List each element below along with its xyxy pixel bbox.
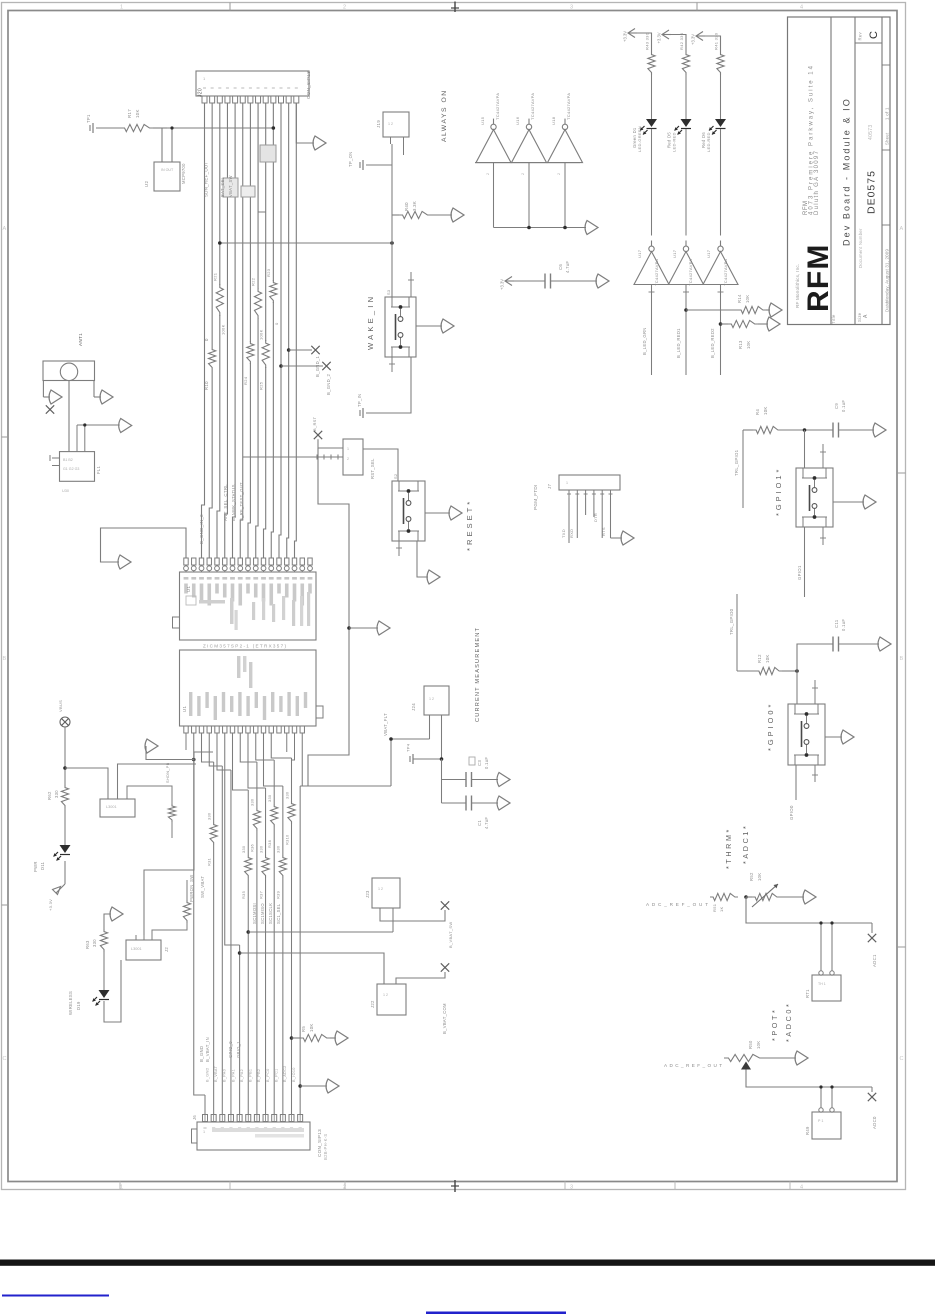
potentiometer R50 [724,1054,764,1061]
test point TP1 [92,123,94,133]
wire U1 to J6 pin 1 [194,733,205,1095]
svg-text:10K: 10K [763,406,768,415]
resistor R40 [399,211,431,218]
svg-text:DE0575: DE0575 [866,170,878,214]
svg-text:TRL_GPIO0: TRL_GPIO0 [729,608,734,635]
svg-text:B: B [900,656,904,662]
link underline 2 [426,1312,566,1315]
svg-text:330: 330 [258,845,263,853]
resistor R37 [262,855,269,878]
current sense wires [300,785,391,787]
wire down [64,727,66,785]
buffer U17B [669,252,704,285]
svg-text:330: 330 [206,812,211,820]
wire U1 to J6 pin 6 [233,733,249,790]
R14 chain [684,308,688,312]
svg-text:J6: J6 [192,1115,197,1120]
wire U1 to J6 pin 4 [217,733,231,770]
net flag top [60,717,70,727]
svg-text:RTS: RTS [601,527,606,536]
svg-text:*ADC1*: *ADC1* [741,824,750,864]
svg-text:3.3K: 3.3K [412,201,417,211]
svg-text:B_GND: B_GND [199,1046,204,1062]
wire bus J20 pin 4 to U1 [225,103,228,558]
svg-text:C9: C9 [834,403,839,409]
svg-text:1: 1 [203,76,206,81]
svg-text:1: 1 [566,481,568,485]
svg-text:B_PC0: B_PC0 [266,1068,270,1082]
svg-text:0.1uF: 0.1uF [484,757,489,769]
svg-text:10K: 10K [757,873,762,881]
svg-text:2: 2 [486,173,490,175]
svg-text:B1 B2: B1 B2 [63,458,73,462]
gpio1 arrow [833,501,864,503]
right side pin lower box [316,706,323,718]
svg-text:S3: S3 [386,290,391,295]
svg-text:C: C [3,1056,7,1062]
module U1 lower box [180,650,317,726]
wire to bus [153,127,167,129]
svg-text:B_PA1: B_PA1 [231,1069,235,1082]
svg-text:B_PC1: B_PC1 [275,1068,279,1082]
svg-text:J7: J7 [547,484,552,489]
svg-text:TC4427AVPA: TC4427AVPA [495,93,500,120]
resistor R38 [271,804,278,827]
svg-text:10K: 10K [756,1041,761,1049]
svg-text:D11: D11 [40,861,45,870]
svg-text:L3001: L3001 [131,947,142,951]
svg-text:U17: U17 [706,249,711,258]
svg-text:ADC1: ADC1 [872,954,877,967]
svg-text:TXD: TXD [561,529,566,538]
x-flag above jumper [314,431,322,439]
svg-text:GPIO_1: GPIO_1 [236,1041,241,1058]
gpio0 bottom stubs [795,765,797,800]
svg-text:A: A [3,226,7,232]
resistor R310 [288,801,295,824]
svg-text:ADC0: ADC0 [872,1116,877,1129]
resistor R10 inline [211,103,213,347]
svg-text:B_PA0: B_PA0 [223,1069,227,1082]
svg-text:*THRM*: *THRM* [724,827,733,869]
svg-text:PGM_FTDI: PGM_FTDI [533,484,538,510]
svg-text:B_ADC2: B_ADC2 [283,1065,287,1082]
svg-text:R17: R17 [127,109,132,118]
svg-text:Size: Size [857,312,862,322]
svg-text:C11: C11 [834,619,839,628]
wire jog [258,103,266,212]
svg-text:R25: R25 [259,381,264,390]
resistor R63 [100,929,107,952]
wire U1 to J6 pin 12 [299,786,301,1115]
svg-text:SC1MOSI: SC1MOSI [252,903,257,924]
svg-text:FL1: FL1 [96,466,101,474]
second chain arrow [104,914,111,929]
svg-text:TP1: TP1 [86,114,91,123]
left side pin [173,617,180,628]
svg-text:BAT_SEL: BAT_SEL [220,176,225,197]
svg-text:WIRELESS: WIRELESS [68,991,73,1015]
svg-text:WAKE_IN: WAKE_IN [366,294,375,350]
power flag chain 2 [662,30,669,39]
wire J7 pin 5 [601,490,603,498]
svg-text:J24: J24 [411,703,416,711]
svg-text:0.1uF: 0.1uF [841,400,846,412]
wire A to jumper J23 [246,930,250,934]
svg-text:DTR: DTR [593,513,598,522]
svg-text:1K: 1K [719,906,724,912]
svg-text:ZICM357SP2-1 (ETRX357): ZICM357SP2-1 (ETRX357) [203,644,286,649]
svg-text:B_LED_RED1: B_LED_RED1 [676,328,681,358]
svg-text:B_IO10: B_IO10 [292,1067,296,1082]
svg-text:3: 3 [570,5,573,11]
svg-text:RXD: RXD [569,529,574,538]
wire U1 to J6 pin 5 [225,733,240,945]
svg-text:100K: 100K [221,324,226,335]
svg-text:C6: C6 [558,264,563,270]
resistor R24 [247,341,254,364]
wire up to bus [144,752,213,935]
svg-text:R5: R5 [301,1026,306,1032]
svg-text:4: 4 [800,1185,803,1191]
gpio1 net stub [742,430,744,508]
group2 outputs down [651,285,653,376]
svg-text:2: 2 [343,5,346,11]
module U1 bottom pins [184,726,188,733]
svg-text:R50: R50 [748,1040,753,1049]
svg-text:R62: R62 [47,791,52,800]
svg-text:40573: 40573 [868,125,874,140]
svg-text:Title: Title [831,314,836,324]
wire J7 pin 1 [568,490,570,498]
svg-text:B_GND_IN_2: B_GND_IN_2 [199,514,204,544]
svg-text:330: 330 [54,790,59,798]
svg-text:*POT*: *POT* [770,1008,779,1041]
svg-text:Sheet: Sheet [884,132,889,145]
R5 chain to arrow [290,1036,294,1040]
svg-text:3: 3 [570,1185,573,1191]
svg-text:10K: 10K [765,654,770,663]
svg-text:PWR: PWR [33,861,38,872]
buffer U17A [634,252,669,285]
module extra bottom stubs [286,733,288,752]
wire from thermistor circuit [167,127,273,129]
svg-text:330: 330 [276,845,281,853]
svg-text:TC4427AVPA: TC4427AVPA [723,259,728,286]
LED Red D5 [681,119,692,127]
svg-text:R51: R51 [712,903,717,912]
svg-text:R41 330: R41 330 [714,32,719,50]
wire to R40/wake net [220,242,392,244]
wire B to jumper J22 [238,951,242,955]
svg-text:330: 330 [267,794,272,802]
LED D11 power [60,845,71,853]
resistor R35 [245,855,252,878]
svg-text:LED-RED: LED-RED [672,132,677,152]
svg-text:1 2: 1 2 [383,993,388,997]
resistor R42 [682,52,689,75]
resistor R61 [152,923,187,935]
svg-text:C: C [900,1056,904,1062]
svg-text:330: 330 [92,939,97,947]
svg-text:R23: R23 [266,268,271,277]
svg-text:R36: R36 [250,844,255,852]
svg-text:B_NWK_STATUS: B_NWK_STATUS [231,484,236,521]
wire J7 pin 3 [585,490,587,498]
resistor R39 [279,855,286,878]
loop wire around module right [308,448,349,786]
baseline group1 [475,162,580,164]
thermistor block RT1 [819,971,823,975]
svg-text:R14: R14 [737,294,742,303]
svg-text:ANT_SEL_CTRL: ANT_SEL_CTRL [223,484,228,521]
wire U1 to J6 pin 7 [240,733,257,762]
cap C3 [441,759,443,803]
svg-text:4.7uF: 4.7uF [484,817,489,829]
svg-text:R22: R22 [251,277,256,286]
svg-text:0: 0 [204,338,209,341]
gpio0 arrow [825,736,842,738]
svg-text:GPIO_0: GPIO_0 [228,1041,233,1058]
power flag chain 1 [628,29,635,38]
wire loop to jumper J2 [104,960,121,1022]
resistor R36 [253,808,260,831]
svg-text:J22: J22 [370,1000,375,1008]
svg-text:R42 330: R42 330 [679,32,684,50]
svg-text:RST_SEL: RST_SEL [370,458,375,479]
small parts in corridor [223,178,238,197]
wire J19 to wake switch [391,165,393,297]
title block rev cell [855,42,882,44]
wire bus J20 pin 10 to U1 [271,103,273,558]
svg-text:CURRENT MEASUREMENT: CURRENT MEASUREMENT [475,627,481,722]
thermistor R52 [746,896,752,898]
svg-text:G1 G2 G3: G1 G2 G3 [63,467,79,471]
buffer U16 [512,130,547,163]
arrow from J20 pin 13 [296,103,314,143]
svg-text:B_GND: B_GND [205,1067,209,1082]
wire U1 to J6 pin 10 [264,733,283,786]
svg-text:U2: U2 [144,181,149,187]
resistor R62 [61,785,68,808]
svg-text:TC4427AVPA: TC4427AVPA [530,93,535,120]
resistor R22 [254,288,261,319]
svg-text:LED-RED: LED-RED [706,132,711,152]
wire bus J20 pin 8 to U1 [256,103,258,558]
svg-text:MCP9700: MCP9700 [181,163,186,184]
svg-text:2: 2 [343,1185,346,1191]
svg-text:1 2: 1 2 [378,887,383,891]
R13 chain [719,322,723,326]
svg-text:B_VBAT_IN: B_VBAT_IN [205,1037,210,1062]
svg-text:U30: U30 [62,489,69,493]
svg-text:330: 330 [241,845,246,853]
svg-text:R10: R10 [204,381,209,390]
svg-text:TH 1: TH 1 [818,982,826,986]
svg-text:Duluth GA 30097: Duluth GA 30097 [814,150,820,215]
antenna to filter wires [68,381,70,452]
svg-text:R49: R49 [805,1126,810,1135]
svg-text:SC1SCLK: SC1SCLK [268,903,273,924]
svg-text:330: 330 [284,791,289,799]
svg-text:1 2: 1 2 [429,697,434,701]
wire bus J20 pin 12 to U1 [287,103,289,558]
svg-text:4.7uF: 4.7uF [565,261,570,273]
svg-text:2: 2 [347,457,349,461]
svg-text:Monday, August 31, 2009: Monday, August 31, 2009 [884,249,889,303]
svg-text:L3001: L3001 [106,805,117,809]
wire U1 to J6 pin 11 [271,733,291,758]
svg-text:TC4427AVPA: TC4427AVPA [654,259,659,286]
svg-text:U15: U15 [480,116,485,125]
baseline group2 [634,284,737,286]
wire bus J20 pin 3 to U1 [217,103,220,558]
wake arrow [416,325,442,327]
svg-text:ADC_REF_OUT: ADC_REF_OUT [646,902,708,907]
svg-text:P 1: P 1 [818,1119,823,1123]
wire to RT1 [746,897,872,923]
svg-text:R40: R40 [404,202,409,211]
gnd x-flags near bus [287,348,291,352]
jumper J17 [343,439,363,475]
svg-text:SC1MISO: SC1MISO [260,903,265,924]
svg-text:2: 2 [521,173,525,175]
svg-text:U1: U1 [186,586,191,592]
svg-text:PWRON_SW: PWRON_SW [189,874,194,902]
svg-text:4: 4 [800,5,803,11]
wire U1 to J6 pin 2 [202,733,214,762]
connector J19 [383,112,409,137]
svg-text:*GPIO0*: *GPIO0* [766,702,775,751]
svg-text:R4: R4 [755,409,760,415]
wire bus J20 pin 6 to U1 [240,103,243,558]
svg-text:R12: R12 [757,654,762,663]
gpio1 switch S1 [804,430,806,468]
svg-text:+3.3V: +3.3V [500,279,505,290]
svg-text:0: 0 [274,322,279,325]
svg-text:VBAT_SW: VBAT_SW [228,175,233,197]
svg-text:R38: R38 [267,840,272,848]
wire J7 pin 4 [593,490,595,498]
resistor R60 off L1 [127,786,172,804]
resistor R17 [96,127,121,129]
gpio0 switch S4 [796,671,798,704]
svg-text:TP4: TP4 [406,743,411,752]
svg-text:U16: U16 [515,116,520,125]
wire bus J20 pin 7 to U1 [248,103,250,558]
cap C9 [832,423,834,438]
LED Green D1 [646,119,657,127]
gpio0 net stub [736,594,738,671]
svg-text:U17: U17 [672,249,677,258]
LED Red D6 [715,119,726,127]
svg-text:SDN_REF_OUT: SDN_REF_OUT [204,161,209,197]
pot wiper wire [746,1070,872,1088]
svg-text:CON_SIP13: CON_SIP13 [317,1129,322,1157]
svg-text:Dev Board - Module & IO: Dev Board - Module & IO [842,97,852,246]
svg-text:*ADC0*: *ADC0* [784,1002,793,1042]
svg-text:R13: R13 [738,340,743,349]
svg-text:10K: 10K [135,109,140,118]
svg-text:R52: R52 [749,872,754,881]
svg-text:B_GND_2: B_GND_2 [326,373,331,395]
svg-text:RFM: RFM [802,243,835,312]
svg-text:B2B-PH-K-S: B2B-PH-K-S [323,1133,328,1160]
svg-text:U1: U1 [182,706,187,712]
svg-text:LED-GREEN: LED-GREEN [637,126,642,152]
svg-text:SHDN_PB: SHDN_PB [165,762,170,783]
resistor R31 [210,822,217,845]
svg-text:1: 1 [203,1130,205,1134]
title block frame [788,17,891,325]
svg-text:0.1uF: 0.1uF [841,619,846,631]
gnd flag [64,861,66,884]
wake switch SW3 [385,297,416,357]
wire bus J20 pin 9 to U1 [264,103,266,558]
svg-text:1 2: 1 2 [388,122,393,126]
jumper block L1 [118,764,197,799]
svg-text:VBAT_FLT: VBAT_FLT [383,713,388,736]
svg-text:Document Number: Document Number [858,228,863,268]
group1 output bus [493,163,495,228]
svg-text:1: 1 [347,447,349,451]
svg-text:B_LED_RED2: B_LED_RED2 [710,328,715,358]
svg-text:R63: R63 [85,940,90,949]
svg-text:100K: 100K [259,329,264,340]
arrow from connector line 12 [298,1084,302,1088]
filter FL1 box [60,452,95,482]
svg-text:B: B [3,656,7,662]
sensor U2 box [161,128,163,162]
svg-text:*RESET*: *RESET* [465,499,474,551]
buffer U17C [703,252,738,285]
svg-text:RF Monolithics, Inc.: RF Monolithics, Inc. [795,264,800,308]
svg-text:TP_IN: TP_IN [357,394,362,407]
svg-text:R43 330: R43 330 [645,32,650,50]
svg-text:*GPIO1*: *GPIO1* [774,467,783,516]
svg-text:1: 1 [120,1185,123,1191]
link underline 1 [2,1295,109,1297]
svg-text:TP_ON: TP_ON [348,152,353,167]
power flag 3.3V [505,277,512,286]
svg-text:RT1: RT1 [805,989,810,998]
cap C6 [544,274,546,289]
resistor R25 [262,340,269,368]
svg-text:+3.3V: +3.3V [691,34,696,45]
resistor R23 [270,280,277,303]
separator bar [0,1260,935,1266]
wire J7 pin 6 [610,490,612,498]
svg-text:10K: 10K [746,341,751,349]
svg-text:B_VBAT: B_VBAT [214,1066,218,1082]
svg-text:B_LED_GRN: B_LED_GRN [642,327,647,355]
wire U1 to J6 pin 3 [209,733,222,766]
svg-text:C: C [868,31,880,39]
buffer U15 [476,130,511,163]
svg-text:1 of 1: 1 of 1 [884,107,889,120]
wire J7 pin 2 [576,490,578,498]
connector J20 [196,71,309,96]
svg-text:R31: R31 [206,858,211,866]
svg-text:R37: R37 [258,891,263,899]
bottom connector J6 [197,1122,310,1150]
x-flag adc1 [871,923,873,933]
cap C11 [797,644,833,671]
module U1 upper box [180,572,317,640]
svg-text:C3: C3 [477,760,482,766]
svg-text:R39: R39 [276,891,281,899]
svg-text:330: 330 [250,798,255,806]
